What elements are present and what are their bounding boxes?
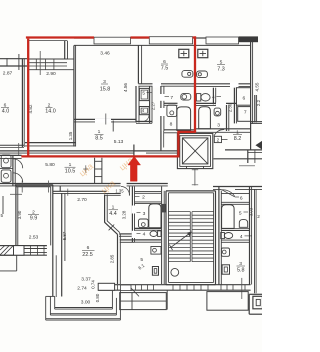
closet7r (238, 107, 251, 122)
wall top-right solid block (239, 36, 258, 42)
wall bottom band (98, 284, 250, 286)
closet2 label (135, 196, 140, 198)
svg-text:10.5: 10.5 (65, 169, 76, 175)
closet5 (139, 88, 149, 100)
window kitchen6 top (149, 37, 192, 44)
closet2 walls (135, 190, 162, 192)
wall wc4r bottom (221, 239, 249, 241)
svg-text:3.46: 3.46 (100, 50, 110, 56)
wall right adjacent (254, 189, 256, 293)
room1 walls (119, 233, 134, 235)
closet6r2 (221, 192, 249, 194)
wall wc4L bottom (135, 239, 162, 241)
elevator cabin (182, 138, 208, 164)
svg-text:22.5: 22.5 (82, 252, 93, 258)
svg-text:5.87: 5.87 (62, 231, 67, 240)
svg-text:4.55: 4.55 (255, 82, 260, 91)
wall top-left window band (0, 58, 27, 60)
window kitchen5 top (206, 37, 239, 44)
wall lower-right top (213, 186, 262, 188)
wc7 toilet (181, 94, 191, 101)
svg-text:2.87: 2.87 (3, 71, 13, 77)
wall corridor top (0, 150, 178, 152)
stair stringer (189, 212, 191, 262)
wall step room1 (105, 193, 121, 195)
svg-text:3.00: 3.00 (81, 300, 91, 306)
wall right-apt bottom (196, 128, 251, 130)
door leaf lower-right (222, 190, 235, 197)
svg-text:5.13: 5.13 (114, 139, 124, 145)
wall corridor right top (225, 149, 262, 151)
svg-text:4.0: 4.0 (2, 109, 10, 115)
wall bath3L-wc4 divider (135, 227, 162, 229)
wall lower-right right (249, 187, 251, 285)
svg-text:14.0: 14.0 (45, 108, 56, 114)
svg-text:2.70: 2.70 (77, 197, 87, 203)
svg-text:3: 3 (217, 122, 220, 128)
bay right wall (64, 41, 66, 60)
room2-99 bottom window (0, 245, 47, 247)
svg-text:4: 4 (240, 234, 243, 240)
room2-99 walls (16, 184, 53, 186)
svg-text:3.03: 3.03 (248, 207, 253, 216)
room2 bay window (28, 58, 67, 60)
door leaf room1 (128, 187, 130, 196)
wc7 label (165, 96, 170, 98)
vent box kitchen5 (198, 49, 208, 57)
wall stub right edge (254, 95, 256, 123)
svg-text:3: 3 (143, 211, 146, 217)
door jamb apt1 entry (133, 145, 135, 158)
loggia inner line (28, 40, 67, 42)
svg-text:2.90: 2.90 (46, 71, 56, 77)
wall top outer black (74, 37, 94, 39)
svg-text:7.5: 7.5 (161, 66, 169, 72)
svg-text:4: 4 (142, 108, 145, 113)
wall room3-kitchen (137, 45, 139, 83)
balcony room6 rails (55, 307, 113, 309)
wc4 toilet (196, 94, 200, 101)
stair treads (169, 211, 191, 213)
svg-text:2.27: 2.27 (151, 101, 156, 110)
wall rooms78 left (160, 86, 162, 151)
svg-text:5.80: 5.80 (45, 162, 55, 168)
wall closets right-apt (233, 88, 235, 124)
right porch (207, 292, 248, 311)
svg-text:4: 4 (143, 232, 146, 238)
window room3 top (94, 37, 131, 44)
room6 top wall (53, 190, 107, 192)
wall rooms78 bottom (164, 129, 196, 131)
stair arrow (170, 234, 189, 248)
bath5r toilet (239, 220, 247, 228)
wall top inner line (74, 44, 251, 46)
dim line 2.90 (39, 51, 41, 75)
red apartment outline (27, 39, 29, 158)
door arc left2 (13, 173, 22, 182)
wall lower-right left (218, 187, 220, 285)
room6 left wall (61, 193, 63, 296)
svg-text:7: 7 (244, 109, 247, 115)
svg-text:2.2: 2.2 (256, 99, 261, 106)
wall closet bottom (136, 120, 152, 122)
wall stub room6 top-left (59, 186, 61, 192)
svg-text:6: 6 (243, 96, 246, 102)
kitchen3r sink (221, 248, 229, 256)
dim ticks room2-99 (21, 181, 23, 193)
elevator shaft outer (177, 133, 212, 168)
closet4 (139, 107, 149, 115)
radiator box (98, 283, 114, 290)
bath8 tub (177, 107, 191, 131)
wall wc4-bath3 divider (196, 102, 236, 104)
door arc left1 (13, 159, 22, 168)
kitchen6 sink unit (182, 71, 193, 78)
svg-text:5.8: 5.8 (237, 268, 245, 274)
left porch (120, 293, 167, 310)
svg-text:3.28: 3.28 (122, 210, 127, 219)
kitchen5L sink (151, 247, 161, 255)
bath3 tub (199, 107, 211, 129)
svg-text:2: 2 (257, 214, 260, 219)
pier box (14, 246, 25, 256)
room6 right wall lower (117, 234, 119, 284)
bath3L tub (149, 204, 161, 228)
right edge box (249, 293, 262, 295)
svg-text:15.8: 15.8 (100, 87, 111, 93)
bath8 sink (167, 105, 177, 117)
elevator door ticks (186, 166, 188, 168)
wall bath5r bottom (221, 228, 249, 230)
kitchen5 sink unit (197, 71, 208, 78)
wall closets right (149, 86, 151, 123)
svg-text:9.9: 9.9 (30, 215, 38, 221)
bath3 sink (214, 108, 221, 116)
kitchen5L vent (152, 267, 158, 276)
svg-text:5: 5 (1, 213, 4, 218)
wall kitchen5 bottom (196, 83, 251, 85)
wall hall right (131, 187, 133, 243)
corridor steps (94, 158, 96, 184)
shaft box (161, 204, 166, 213)
wall corridor left end (0, 154, 22, 156)
dim tick bottom (241, 278, 243, 299)
svg-text:2.85: 2.85 (110, 254, 115, 263)
wc4r toilet (221, 233, 225, 239)
svg-text:2: 2 (217, 137, 220, 142)
wall corridor bottom (0, 183, 121, 185)
closet6r (236, 88, 250, 106)
svg-text:6: 6 (240, 195, 243, 201)
bath3L sink (139, 219, 149, 228)
balcony door room6 (121, 285, 132, 291)
wall left room right wall (21, 59, 23, 147)
vent square right edge (253, 296, 263, 309)
arrow right entrance (256, 141, 262, 149)
svg-text:2.74: 2.74 (77, 285, 87, 291)
bath5r tub (222, 205, 235, 229)
wc4L label (137, 232, 141, 234)
wc left box1 (1, 155, 11, 168)
room6 right wall upper (104, 195, 106, 223)
svg-text:0.74: 0.74 (90, 280, 95, 289)
svg-text:3.90: 3.90 (17, 210, 22, 219)
svg-text:7: 7 (170, 95, 173, 101)
hatch block (0, 246, 14, 256)
stairwell walls (165, 191, 167, 285)
wall bath3 right (226, 105, 228, 131)
svg-text:1.35: 1.35 (115, 189, 124, 194)
wall room2-room3 (73, 45, 75, 146)
red entrance arrow (128, 156, 141, 181)
svg-text:4.4: 4.4 (109, 211, 117, 217)
wall left rooms (12, 155, 14, 186)
stair circle (171, 268, 179, 276)
wall niche below bath8 (160, 131, 162, 151)
svg-text:5: 5 (239, 210, 242, 216)
wall building right (250, 42, 252, 151)
svg-text:2: 2 (142, 195, 145, 201)
svg-text:7.3: 7.3 (217, 67, 225, 73)
dim tick 2.70 (67, 189, 69, 196)
room6 diagonal (105, 222, 118, 234)
svg-text:4.56: 4.56 (123, 83, 128, 92)
wc left box2 (1, 170, 11, 182)
svg-text:5: 5 (142, 91, 145, 96)
wall left room bottom (0, 144, 24, 146)
svg-text:2.53: 2.53 (29, 235, 39, 241)
svg-text:8.2: 8.2 (234, 136, 242, 142)
wall 7-8 divider (164, 102, 178, 104)
hall82 door arc (214, 130, 224, 137)
wc4L toilet (158, 231, 161, 237)
svg-text:8.5: 8.5 (95, 136, 103, 142)
wall room2 bottom (25, 142, 76, 144)
svg-text:2.30: 2.30 (228, 103, 233, 112)
kitchen3r vent (222, 265, 229, 274)
bath3L label (137, 212, 141, 214)
dim line below elevator (194, 169, 196, 186)
wall left stub lower (2, 196, 4, 214)
wall room3 bottom (74, 118, 136, 120)
door jamb room3 (105, 114, 107, 125)
tick dim (18, 143, 20, 155)
closet2r by elevator (214, 136, 221, 142)
svg-text:1.35: 1.35 (68, 131, 73, 140)
vent box kitchen6 (179, 49, 189, 57)
wall lower-left unit right (161, 187, 163, 285)
wall wc4 right (212, 88, 214, 105)
wall kitchen6 bottom (138, 83, 196, 85)
balcony room2 (16, 255, 18, 271)
svg-text:8: 8 (170, 122, 173, 128)
svg-text:0.80: 0.80 (95, 293, 100, 302)
